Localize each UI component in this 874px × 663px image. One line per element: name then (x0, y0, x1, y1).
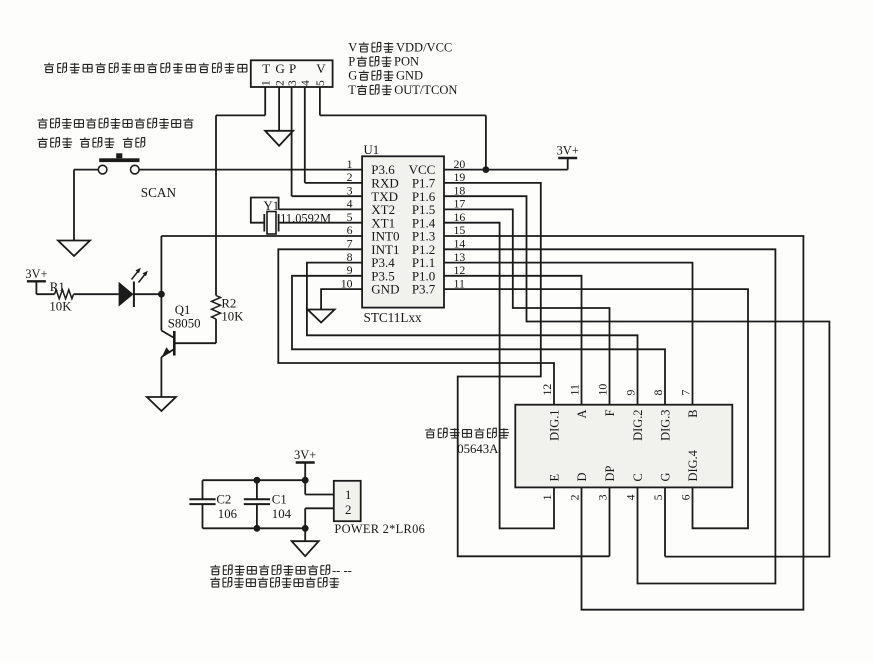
svg-text:G: G (658, 473, 672, 482)
svg-text:A: A (575, 409, 589, 418)
display top pin numbers 12-7 (rotated) (540, 384, 693, 396)
node: top rail 3V+ junction (302, 477, 309, 484)
U1 right pin numbers 20-11 (454, 157, 466, 290)
svg-text:V: V (316, 61, 326, 76)
transistor Q1 base bar (173, 331, 176, 356)
svg-text:3: 3 (287, 80, 299, 86)
net INT1 pin7 to display pin12 DIG.1 (278, 249, 554, 404)
svg-text:6: 6 (347, 223, 353, 237)
wire: header pin3 P down to TXD (291, 87, 293, 196)
svg-text:12: 12 (540, 384, 554, 396)
svg-text:1: 1 (260, 80, 272, 86)
wire: T net horizontal (216, 114, 265, 116)
wire: U1 GND pin10 down (321, 289, 362, 309)
wire: R1 to LED (74, 293, 119, 295)
svg-text:13: 13 (454, 250, 466, 264)
power connector body (334, 481, 361, 521)
svg-text:4: 4 (300, 80, 312, 86)
label display type (425, 428, 509, 438)
net P1.0 pin12 to display pin11 A (444, 276, 582, 405)
svg-text:5: 5 (315, 80, 327, 86)
pushbutton SCAN S1 (98, 165, 107, 174)
svg-text:5: 5 (651, 494, 665, 500)
ground symbol below SCAN (58, 241, 90, 257)
svg-text:-- --: -- -- (332, 563, 352, 577)
crystal Y1 (263, 214, 265, 232)
wire: supply top rail (203, 479, 306, 481)
wire: XT1 to crystal (279, 222, 363, 224)
wire: node up to INT0 line (160, 236, 162, 294)
ground symbol below header pin G (265, 131, 293, 146)
svg-text:F: F (603, 409, 617, 416)
svg-text:P: P (289, 61, 296, 76)
annotation text: P module PON (348, 55, 419, 69)
svg-text:5: 5 (347, 210, 353, 224)
svg-text:6: 6 (679, 494, 693, 500)
svg-text:2: 2 (274, 80, 286, 86)
svg-text:G: G (348, 69, 357, 83)
svg-text:E: E (547, 474, 561, 482)
power symbol 3V+ (top right) (558, 157, 577, 159)
svg-text:8: 8 (347, 250, 353, 264)
resistor R2 (212, 296, 221, 320)
svg-text:20: 20 (454, 157, 466, 171)
annotation text: power-on receive note (210, 563, 351, 577)
svg-text:7: 7 (679, 390, 693, 396)
net P1.3 pin15 to display pin2 D (444, 236, 803, 610)
wire: header pin5 V down (319, 87, 321, 115)
display top pin names (rotated) (547, 409, 700, 440)
svg-text:104: 104 (272, 507, 292, 521)
wire: header pin4 down to RXD (304, 87, 306, 183)
svg-text:11: 11 (454, 276, 465, 290)
net P3.4 pin8 to display pin9 DIG.2 (307, 263, 638, 405)
svg-text:15: 15 (454, 223, 466, 237)
net P1.2 pin14 to display pin4 C (444, 249, 775, 583)
svg-text:1: 1 (347, 157, 353, 171)
svg-text:GND: GND (396, 69, 423, 83)
wire: supply bottom rail (203, 527, 306, 529)
wire: XT2 loop (279, 208, 363, 210)
svg-text:106: 106 (218, 507, 238, 521)
svg-text:3V+: 3V+ (294, 448, 316, 462)
net P3.7 pin11 to display pin6 DIG.4 (444, 289, 748, 528)
svg-text:D: D (575, 473, 589, 482)
annotation text: hour minute second / date / week (38, 137, 145, 147)
svg-text:10K: 10K (49, 300, 72, 314)
svg-text:G: G (275, 61, 284, 76)
svg-text:U1: U1 (364, 143, 380, 157)
power symbol 3V+ (left) (27, 280, 46, 282)
svg-text:4: 4 (347, 197, 353, 211)
wire: V net vertical down to VCC node (485, 115, 487, 169)
annotation text: T module OUT/TCON (348, 83, 457, 97)
wire: TXD to header pin3 (292, 195, 363, 197)
svg-text:C2: C2 (216, 493, 231, 507)
svg-text:PON: PON (394, 55, 419, 69)
display connector body (515, 405, 732, 488)
wire: V net horizontal to VCC (320, 114, 486, 116)
svg-text:05643A: 05643A (457, 442, 499, 456)
svg-text:3: 3 (347, 183, 353, 197)
svg-text:R1: R1 (50, 280, 65, 294)
svg-text:VDD/VCC: VDD/VCC (396, 41, 452, 55)
display bottom pin numbers 1-6 (rotated) (540, 494, 693, 500)
svg-text:7: 7 (347, 237, 353, 251)
capacitor C2 (202, 480, 204, 499)
wire: power pin2 to ground rail (305, 507, 334, 509)
wire: INT0 line to U1 pin 6 (161, 235, 362, 237)
svg-text:4: 4 (624, 494, 638, 500)
net P1.5 pin17 to display pin10 F (444, 209, 610, 404)
svg-text:2: 2 (568, 494, 582, 500)
wire: SCAN left to ground (74, 169, 98, 171)
wire: SCAN to U1 P3.6 pin 1 (139, 169, 362, 171)
svg-text:10K: 10K (221, 309, 244, 323)
svg-text:S8050: S8050 (168, 317, 201, 331)
node: bottom rail C1 junction (254, 525, 261, 532)
wire: node down to Q1 collector (160, 294, 162, 330)
wire: LED cathode to node (134, 293, 162, 295)
svg-text:Y1: Y1 (264, 199, 280, 213)
svg-text:3: 3 (596, 494, 610, 500)
ground symbol below U1 GND (308, 310, 335, 323)
svg-text:SCAN: SCAN (141, 185, 177, 200)
wire: header pin2 G down (278, 87, 280, 131)
svg-text:STC11Lxx: STC11Lxx (364, 310, 423, 325)
svg-text:9: 9 (624, 390, 638, 396)
svg-text:2: 2 (345, 503, 351, 517)
net P1.6 pin18 to display pin5 G (444, 196, 829, 556)
U1 left pin numbers 1-10 (341, 157, 353, 290)
svg-text:16: 16 (454, 210, 466, 224)
node: bottom rail junction (302, 525, 309, 532)
LED D1 (119, 282, 134, 307)
svg-text:GND: GND (371, 282, 399, 297)
svg-text:DIG.3: DIG.3 (658, 410, 672, 441)
svg-text:POWER 2*LR06: POWER 2*LR06 (334, 522, 425, 536)
node: top rail C1 junction (254, 477, 261, 484)
net P1.4 pin16 to display pin1 E (444, 223, 554, 529)
svg-text:P3.7: P3.7 (412, 282, 436, 297)
wire: VCC pin20 to 3V+ (444, 169, 568, 171)
svg-text:DP: DP (603, 466, 617, 482)
header J1 pin numbers 1-5 (rotated) (260, 80, 327, 86)
svg-text:DIG.1: DIG.1 (547, 410, 561, 441)
svg-text:T: T (262, 61, 270, 76)
svg-text:10: 10 (341, 276, 353, 290)
svg-text:Q1: Q1 (175, 303, 191, 317)
annotation text: standard time display note (210, 577, 339, 587)
power symbol 3V+ (supply) (296, 461, 315, 463)
svg-text:11: 11 (568, 384, 582, 395)
wire: Q1 base to R2 (174, 342, 216, 344)
svg-text:B: B (686, 410, 700, 418)
antenna module header J1 (251, 60, 333, 87)
svg-text:C1: C1 (272, 493, 287, 507)
wire: power pin1 to 3V+ rail (305, 494, 334, 496)
LED light arrows (132, 270, 140, 280)
display bottom pin names (rotated) (547, 450, 700, 481)
svg-text:T: T (348, 83, 356, 97)
wire: 3V+ to R1 (35, 281, 37, 294)
svg-text:V: V (348, 41, 357, 55)
svg-text:3V+: 3V+ (25, 267, 47, 281)
svg-text:1: 1 (540, 494, 554, 500)
svg-text:C: C (631, 473, 645, 481)
svg-text:8: 8 (651, 390, 665, 396)
svg-text:DIG.4: DIG.4 (686, 450, 700, 481)
svg-text:3V+: 3V+ (557, 144, 579, 158)
node: VCC junction (483, 166, 490, 173)
svg-text:18: 18 (454, 183, 466, 197)
wire: RXD to header pin4 (305, 182, 362, 184)
svg-text:P: P (348, 55, 355, 69)
svg-text:11.0592M: 11.0592M (280, 212, 331, 226)
annotation text: antenna placement note (44, 63, 247, 73)
IC U1 body STC11Lxx (362, 156, 444, 307)
wire: T net vertical to R2 (215, 115, 217, 295)
transistor Q1 emitter (161, 349, 174, 357)
net P1.7 pin19 to display pin3 DP (444, 183, 610, 556)
annotation text: G module GND (348, 69, 423, 83)
annotation text: V module VDD/VCC (348, 41, 452, 55)
net P1.1 pin13 to display pin7 B (444, 263, 693, 405)
wire: header pin1 T down (264, 87, 266, 115)
annotation text: press key to query note (38, 118, 194, 128)
node: LED / INT0 / Q1 collector junction (158, 291, 165, 298)
ground symbol below power (292, 541, 319, 556)
svg-text:14: 14 (454, 237, 466, 251)
U1 left pin names (371, 162, 399, 297)
resistor R1 (55, 290, 74, 299)
net P3.5 pin9 to display pin8 DIG.3 (292, 276, 665, 405)
capacitor C1 (256, 480, 258, 499)
svg-text:DIG.2: DIG.2 (631, 410, 645, 441)
svg-text:1: 1 (345, 488, 351, 502)
U1 right pin names (409, 162, 436, 297)
svg-text:10: 10 (596, 384, 610, 396)
ground symbol below Q1 emitter (147, 397, 176, 411)
svg-text:OUT/TCON: OUT/TCON (394, 83, 457, 97)
